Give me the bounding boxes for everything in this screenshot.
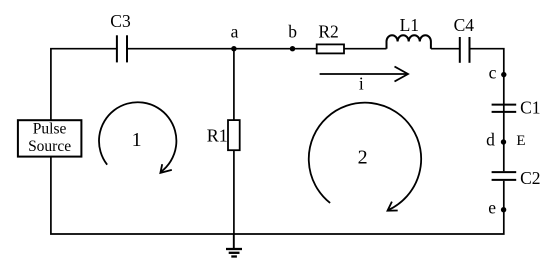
pulse source box [18,120,82,156]
svg-text:b: b [288,22,297,42]
capacitor C2 [492,172,517,180]
svg-text:R2: R2 [318,22,338,42]
resistor R2 [317,44,344,53]
node e [501,207,506,212]
wire node a down to R1 [233,49,235,120]
wire R1 down to bottom wire [233,150,235,234]
wire from C2 bottom down, along bottom, up to pulse source bottom [51,157,504,234]
wire top-left: from pulse source top up and right to C3 [51,49,116,121]
svg-text:L1: L1 [400,15,419,35]
node a [231,46,236,51]
loop arrow 1 [99,102,176,172]
capacitor C4 [460,37,470,63]
resistor R1 [228,120,240,150]
svg-text:C1: C1 [520,98,540,118]
wire R2 to L1 [344,48,387,50]
node b [290,46,295,51]
svg-text:1: 1 [132,129,142,151]
loop arrow 2 [309,103,421,210]
capacitor C1 [492,105,517,112]
svg-text:C3: C3 [110,11,131,31]
svg-text:C2: C2 [520,168,540,188]
current arrow i [320,73,407,75]
svg-text:2: 2 [358,147,368,169]
wire C4 to right side, down through node c and C1 to C2 top plate [470,49,504,172]
svg-text:Source: Source [28,138,71,155]
capacitor C3 [117,35,127,62]
svg-text:a: a [231,22,239,42]
ground [226,234,242,257]
svg-text:e: e [488,197,496,217]
svg-text:Pulse: Pulse [33,121,67,138]
inductor L1 [387,35,431,49]
svg-text:R1: R1 [207,126,228,146]
svg-text:i: i [359,73,364,93]
wire from C3 through node a and node b to R2 [128,48,317,50]
svg-text:E: E [516,133,525,149]
node d [501,139,506,144]
wire L1 to C4 [431,48,460,50]
node c [501,72,506,77]
svg-text:c: c [489,63,497,83]
svg-text:C4: C4 [454,15,475,35]
svg-text:d: d [486,130,495,150]
